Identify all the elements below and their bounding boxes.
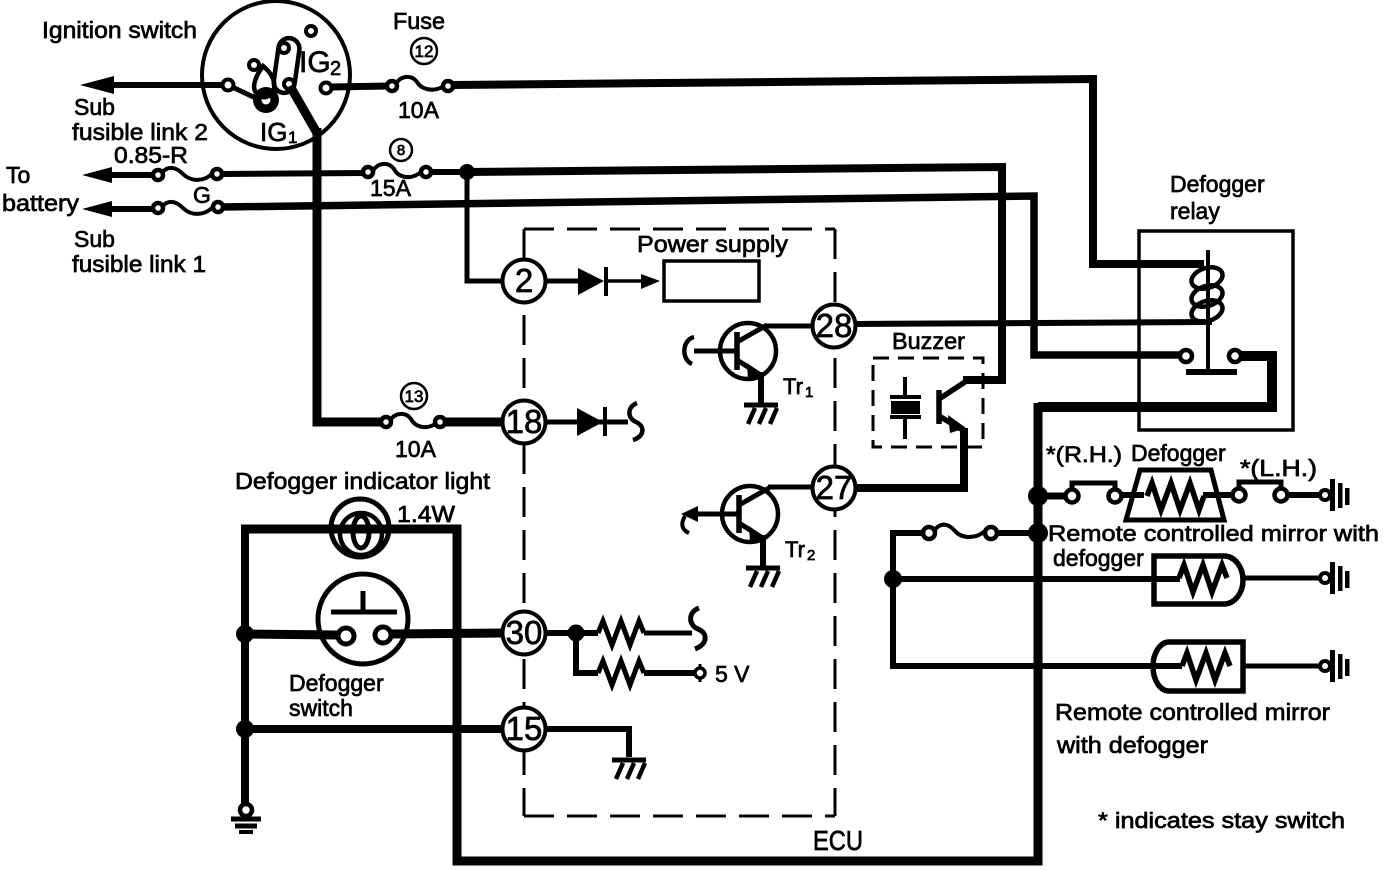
svg-text:0.85-R: 0.85-R — [114, 142, 188, 168]
svg-text:*(R.H.): *(R.H.) — [1046, 442, 1122, 467]
svg-text:18: 18 — [506, 403, 543, 440]
svg-text:*(L.H.): *(L.H.) — [1240, 455, 1317, 481]
svg-text:8: 8 — [397, 142, 405, 159]
svg-text:Remote controlled mirror: Remote controlled mirror — [1055, 699, 1330, 725]
svg-text:15: 15 — [506, 710, 543, 747]
svg-text:Power supply: Power supply — [637, 231, 789, 257]
svg-text:13: 13 — [405, 387, 424, 406]
svg-text:IG: IG — [299, 46, 331, 79]
svg-text:Defogger indicator light: Defogger indicator light — [235, 468, 491, 494]
svg-text:15A: 15A — [370, 175, 412, 201]
svg-text:2: 2 — [330, 58, 341, 80]
svg-text:G: G — [193, 182, 211, 208]
svg-text:2: 2 — [515, 262, 533, 299]
svg-text:Sub: Sub — [74, 94, 115, 120]
svg-text:with defogger: with defogger — [1056, 732, 1208, 758]
svg-text:switch: switch — [289, 695, 353, 721]
svg-text:1.4W: 1.4W — [397, 501, 455, 527]
svg-text:IG: IG — [260, 117, 287, 147]
svg-text:28: 28 — [816, 307, 853, 344]
svg-text:relay: relay — [1170, 198, 1220, 224]
svg-text:Ignition switch: Ignition switch — [42, 17, 197, 43]
svg-text:Tr: Tr — [783, 374, 803, 399]
svg-text:1: 1 — [805, 384, 813, 401]
svg-text:Fuse: Fuse — [393, 8, 445, 34]
svg-text:2: 2 — [807, 547, 815, 564]
svg-text:Tr: Tr — [785, 537, 805, 562]
svg-text:5 V: 5 V — [715, 661, 750, 687]
svg-text:27: 27 — [816, 469, 853, 506]
svg-text:* indicates stay switch: * indicates stay switch — [1098, 808, 1345, 833]
svg-text:Defogger: Defogger — [1131, 440, 1226, 466]
svg-text:Defogger: Defogger — [1170, 171, 1265, 197]
svg-text:Remote controlled mirror with: Remote controlled mirror with — [1048, 521, 1379, 546]
svg-text:Buzzer: Buzzer — [892, 328, 965, 354]
svg-text:1: 1 — [288, 128, 297, 147]
svg-text:12: 12 — [415, 42, 434, 61]
svg-text:ECU: ECU — [813, 825, 863, 856]
svg-text:defogger: defogger — [1053, 545, 1144, 571]
svg-text:30: 30 — [506, 614, 543, 651]
svg-text:To: To — [6, 162, 30, 188]
svg-text:10A: 10A — [395, 436, 437, 462]
svg-text:fusible link 1: fusible link 1 — [72, 251, 206, 277]
svg-text:Sub: Sub — [74, 226, 115, 252]
svg-text:10A: 10A — [398, 97, 440, 123]
svg-text:Defogger: Defogger — [289, 670, 384, 696]
svg-text:battery: battery — [2, 190, 80, 216]
